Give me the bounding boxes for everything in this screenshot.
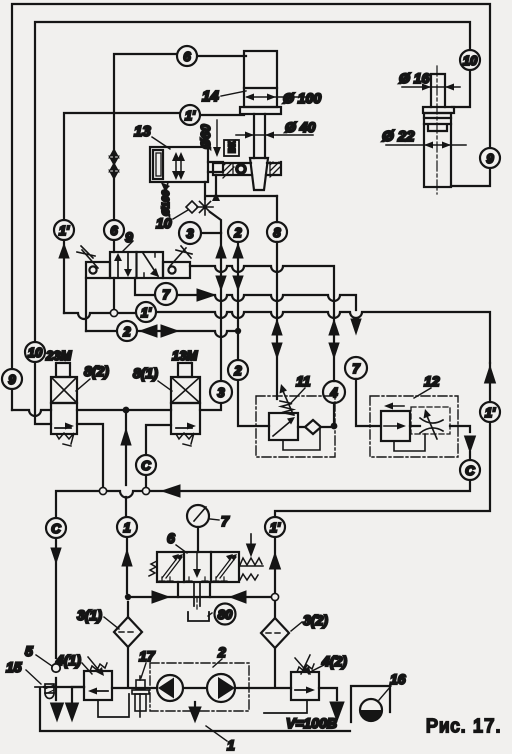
svg-text:9: 9 — [486, 151, 494, 166]
flow arrow up at clamp port — [212, 192, 220, 201]
cylinder 13: left cap double wall — [153, 150, 163, 179]
wire 4(1) bottom drain loop — [98, 694, 129, 717]
svg-text:1': 1' — [59, 223, 70, 238]
dimension Ø16 — [402, 84, 460, 91]
wire C branch to 8(1) — [146, 425, 171, 487]
valve U9 right roller actuator — [163, 246, 192, 278]
solenoid valve 8(2): coil box with X — [51, 377, 77, 403]
pump suction to tank — [194, 702, 196, 708]
svg-text:10: 10 — [463, 53, 478, 68]
svg-text:Ø 100: Ø 100 — [283, 90, 321, 106]
wire h5 drain bus — [56, 480, 470, 700]
solenoid valve 8(2): spring — [56, 433, 74, 446]
cylinder 14: cone tool — [250, 158, 268, 190]
wire valve9 ports down — [86, 278, 156, 331]
wire bus between 8(2) and 8(1) — [77, 409, 171, 411]
flow arrow right on h2 — [197, 289, 215, 301]
main pump line — [44, 687, 337, 700]
node circle label 3 (top row) — [179, 222, 221, 244]
junction dot h4/v2 — [235, 328, 241, 334]
valve U9 left position arrows — [118, 252, 128, 278]
node circle label 6 (top) — [177, 46, 197, 66]
clamp ball — [235, 163, 247, 175]
svg-text:8(2): 8(2) — [84, 363, 109, 379]
double flow arrows v3 — [272, 320, 282, 358]
node circle label 2 (mid) — [228, 360, 248, 380]
wire: cyl13/clamp to lines 8 and 3 — [205, 175, 277, 233]
open node h6 right — [271, 593, 278, 600]
wire: line 1' upper — [64, 113, 244, 220]
valve 12 internal arrow — [384, 425, 401, 427]
svg-text:7: 7 — [221, 513, 230, 529]
valve 11 internal arrow — [273, 420, 292, 436]
svg-text:V=100В: V=100В — [286, 715, 337, 731]
dimension Ø22 — [386, 142, 466, 149]
solenoid valve 8(1): coil box with X — [171, 377, 200, 403]
node circle label 10 (left) — [25, 342, 45, 362]
coupling star — [197, 199, 213, 215]
limit switch BK box — [224, 140, 239, 156]
valve 11 drain loop — [283, 428, 320, 450]
node circle label 3 (mid) — [210, 381, 232, 403]
dimension Ø100 (cyl 14) — [245, 94, 316, 101]
pump right — [207, 674, 235, 702]
wire valve U6 ports down — [178, 582, 210, 597]
svg-text:ВК: ВК — [227, 141, 237, 153]
valve U6 port ticks — [159, 577, 227, 581]
svg-text:8(1): 8(1) — [133, 365, 158, 381]
valve U6 left spring — [149, 561, 157, 576]
svg-text:Рис. 17.: Рис. 17. — [426, 716, 502, 736]
open nodes on h5 — [99, 487, 106, 494]
double flow arrows v4 — [329, 320, 339, 358]
pilot branch from 1' riser — [250, 534, 252, 545]
solenoid valve 8(1): valve box with arrow — [171, 403, 200, 434]
svg-text:10: 10 — [28, 345, 43, 360]
node circle label 4 — [323, 381, 345, 403]
cylinder 14: rod — [254, 114, 265, 158]
svg-text:2: 2 — [122, 324, 131, 339]
flow arrow up riser 2 — [122, 550, 132, 566]
svg-text:7: 7 — [162, 287, 170, 302]
svg-text:12: 12 — [424, 373, 440, 389]
svg-text:6: 6 — [183, 49, 191, 64]
svg-text:4(2): 4(2) — [321, 653, 347, 669]
svg-text:16: 16 — [390, 671, 406, 687]
flow arrow up lower 1' riser — [270, 553, 281, 569]
wire v2 (line 2) — [238, 242, 269, 426]
tank left wall and bottom — [40, 688, 350, 731]
junction dot bus — [123, 407, 130, 414]
wire h6 — [128, 596, 275, 598]
valve U6 left section arrows — [162, 557, 182, 578]
cylinder 14: barrel — [244, 51, 277, 107]
flow arrow left on h5 — [162, 485, 180, 497]
node circle label 9 (right top) — [480, 148, 500, 168]
node circle label 1' (h3) — [136, 302, 156, 322]
cylinder 13: body — [150, 147, 208, 182]
svg-text:Ø 40: Ø 40 — [285, 119, 316, 135]
node circle label 2 (h4) — [117, 321, 137, 341]
node circle label 1' (right) — [480, 402, 500, 422]
wire 4(2) drain to tank line — [264, 700, 307, 713]
wire h2 line 7 — [177, 295, 356, 310]
check valve diamond — [298, 420, 330, 434]
valve U6 right section arrows — [216, 557, 236, 578]
svg-text:6: 6 — [167, 530, 175, 546]
svg-text:1': 1' — [270, 520, 281, 535]
solenoid valve 8(1): spring — [176, 433, 194, 446]
svg-text:14: 14 — [202, 88, 219, 105]
svg-text:1': 1' — [485, 405, 496, 420]
cylinder 9/10: barrel — [424, 113, 451, 187]
cylinder 14: piston band — [244, 87, 277, 89]
svg-text:3(1): 3(1) — [77, 607, 102, 623]
valve 11 inner square — [269, 413, 298, 440]
node circle label 7 (v5) — [345, 357, 367, 379]
cylinder 9/10 small (top right): rod — [431, 74, 445, 107]
svg-text:2: 2 — [233, 363, 242, 378]
cylinder 9/10: piston lines — [424, 118, 451, 131]
svg-text:1': 1' — [141, 305, 152, 320]
node circle label C (mid) — [136, 455, 156, 475]
node circle label 80 — [208, 604, 236, 625]
drain arrow into tank (left) — [51, 703, 64, 721]
node circle label C (right) — [460, 460, 480, 480]
flow arrows on h6 — [152, 591, 246, 603]
discharge arrow into tank — [330, 702, 344, 721]
tank symbol — [188, 612, 209, 621]
junction node (open) valve9-h3 — [110, 309, 117, 316]
svg-text:4: 4 — [329, 385, 338, 400]
node circle label 2 (top row) — [228, 222, 248, 242]
solenoid valve 8(2): armature box — [56, 363, 70, 377]
wire: top line 6 — [114, 54, 246, 220]
svg-text:2: 2 — [217, 644, 226, 660]
svg-text:3: 3 — [186, 226, 194, 241]
wire drain channel — [194, 582, 200, 606]
double flow arrows v1 at h1 — [216, 244, 226, 290]
svg-text:3(2): 3(2) — [303, 612, 328, 628]
wire pipe 9 into valve 8(2), bump over pipe10 — [12, 410, 51, 416]
clamp bar with hatches — [213, 162, 281, 175]
wire 8(2) right drain to h5 — [77, 424, 103, 487]
node circle label 6 (above valve 9) — [104, 220, 124, 252]
wire pilot h1 from right actuator — [190, 266, 334, 316]
strainer 15 symbol — [35, 684, 54, 699]
svg-text:13: 13 — [134, 123, 151, 140]
node circle label 1' (upper) — [180, 105, 200, 125]
double flow arrows on line 6 — [109, 149, 119, 179]
flow arrow up right riser — [485, 366, 496, 383]
cylinder 9/10: centerline dash-dot — [436, 66, 438, 194]
junction dot h6 left — [125, 594, 131, 600]
svg-text:1: 1 — [123, 520, 130, 535]
svg-text:Ø100: Ø100 — [160, 190, 172, 216]
filter 3(1) — [114, 602, 142, 686]
svg-text:Ø 22: Ø 22 — [382, 128, 415, 145]
valve 12 drain loop — [394, 434, 425, 451]
cylinder 14: bottom flange — [240, 107, 281, 114]
cylinder 9/10: collar flange — [423, 107, 454, 113]
node circle label 10 (right top) — [460, 50, 480, 70]
svg-text:9: 9 — [8, 372, 16, 387]
wire right 1' riser — [275, 363, 490, 593]
double flow arrows v2 at h1 — [233, 244, 243, 290]
junction dot v4 — [331, 423, 338, 430]
wire 4(1) left port drain — [72, 687, 84, 704]
valve 4(1) spring adjust — [88, 657, 107, 674]
clamp left hatch — [223, 163, 234, 178]
wire v3 (line 8) — [276, 196, 278, 399]
dimension Ø40 (cyl 14 rod) — [236, 132, 313, 139]
breather 16 half-filled circle — [360, 699, 382, 721]
valve U9 body — [110, 252, 163, 278]
svg-text:8: 8 — [273, 225, 281, 240]
node circle label 1' (left) — [54, 220, 74, 313]
cylinder 13: stroke arrows — [176, 156, 181, 176]
flow arrow up riser — [121, 429, 131, 445]
wire v1 (line 3) — [200, 233, 221, 410]
wire valve 12 out to C — [410, 426, 470, 460]
svg-text:80: 80 — [218, 607, 233, 622]
svg-text:23М: 23М — [45, 348, 72, 363]
flow arrow down on left C line — [51, 548, 61, 563]
svg-text:4(1): 4(1) — [55, 652, 81, 668]
valve U9 right position crossed path — [143, 253, 158, 276]
svg-text:10: 10 — [156, 215, 172, 231]
valve U9 left roller actuator — [77, 246, 110, 278]
cylinder 13: rod — [208, 162, 223, 172]
open node 5 — [52, 664, 60, 672]
svg-text:2: 2 — [233, 225, 242, 240]
throttle symbol — [420, 418, 443, 433]
valve 12 dash-dot enclosure — [370, 396, 458, 457]
svg-text:С: С — [465, 463, 475, 478]
filter 3(2) — [261, 601, 289, 687]
flow arrows diverging on h4 — [140, 325, 178, 337]
svg-text:7: 7 — [352, 361, 360, 376]
svg-text:15: 15 — [6, 659, 22, 675]
wire v5 below circle7 into valve 12 — [356, 379, 381, 426]
valve 12 inner square — [381, 411, 410, 441]
svg-text:5: 5 — [25, 643, 33, 659]
node circle label 8 — [267, 222, 287, 242]
svg-text:13М: 13М — [172, 348, 198, 363]
svg-text:Ø 16: Ø 16 — [399, 70, 430, 86]
svg-text:3: 3 — [217, 385, 225, 400]
valve 11 spring and pilot cross — [280, 401, 294, 415]
valve 4(2) spring adjust — [295, 655, 314, 674]
solenoid valve 8(1): armature box — [178, 363, 192, 377]
wire h3 line 1' — [64, 312, 490, 363]
svg-text:6: 6 — [110, 223, 118, 238]
svg-text:1: 1 — [227, 737, 235, 753]
wire h4 line 2 — [86, 331, 238, 337]
valve U6 centre section — [196, 552, 198, 573]
wire pipe 9 outer border: left+top+right — [12, 4, 490, 410]
pump unit 2 dash-dot box — [150, 663, 249, 711]
wire v4 below circle4 to dot — [333, 316, 335, 426]
coupling diamond — [186, 201, 198, 213]
node circle label 1' (lower) — [265, 517, 285, 537]
flow arrow up on line 1' left — [59, 244, 69, 258]
svg-text:1': 1' — [185, 108, 196, 123]
solenoid valve 8(2): valve box with arrow — [51, 403, 77, 434]
flow arrow down on v5 — [351, 319, 361, 334]
node circle label 9 (left) — [2, 369, 22, 389]
svg-text:С: С — [51, 521, 61, 536]
relief valve 4(1) box — [84, 671, 112, 700]
relief valve 4(2) box — [291, 672, 319, 700]
pump left — [157, 675, 183, 701]
valve 12 top arrow (pilot) — [389, 405, 404, 407]
injector 17 — [132, 676, 149, 717]
node circle label 7 (h2) — [155, 283, 177, 305]
svg-text:Ø60: Ø60 — [198, 124, 213, 149]
valve U6 right springs — [239, 558, 263, 580]
gauge U7 — [187, 505, 209, 552]
wire pipe 10: second border top — [35, 22, 470, 424]
flow arrow down into C right — [465, 436, 476, 452]
svg-text:С: С — [141, 458, 151, 473]
node circle label 1 — [117, 517, 137, 537]
valve 11 dash-dot enclosure — [256, 396, 335, 457]
breather 16 piping — [351, 686, 390, 722]
wire riser from dot down — [126, 410, 127, 593]
valve U6 body — [157, 552, 239, 582]
clamp right hatch — [270, 162, 281, 177]
svg-text:11: 11 — [296, 373, 311, 389]
svg-text:17: 17 — [139, 648, 156, 664]
node circle label C (left) — [46, 518, 66, 538]
valve 12 throttle box dashed — [411, 407, 450, 434]
